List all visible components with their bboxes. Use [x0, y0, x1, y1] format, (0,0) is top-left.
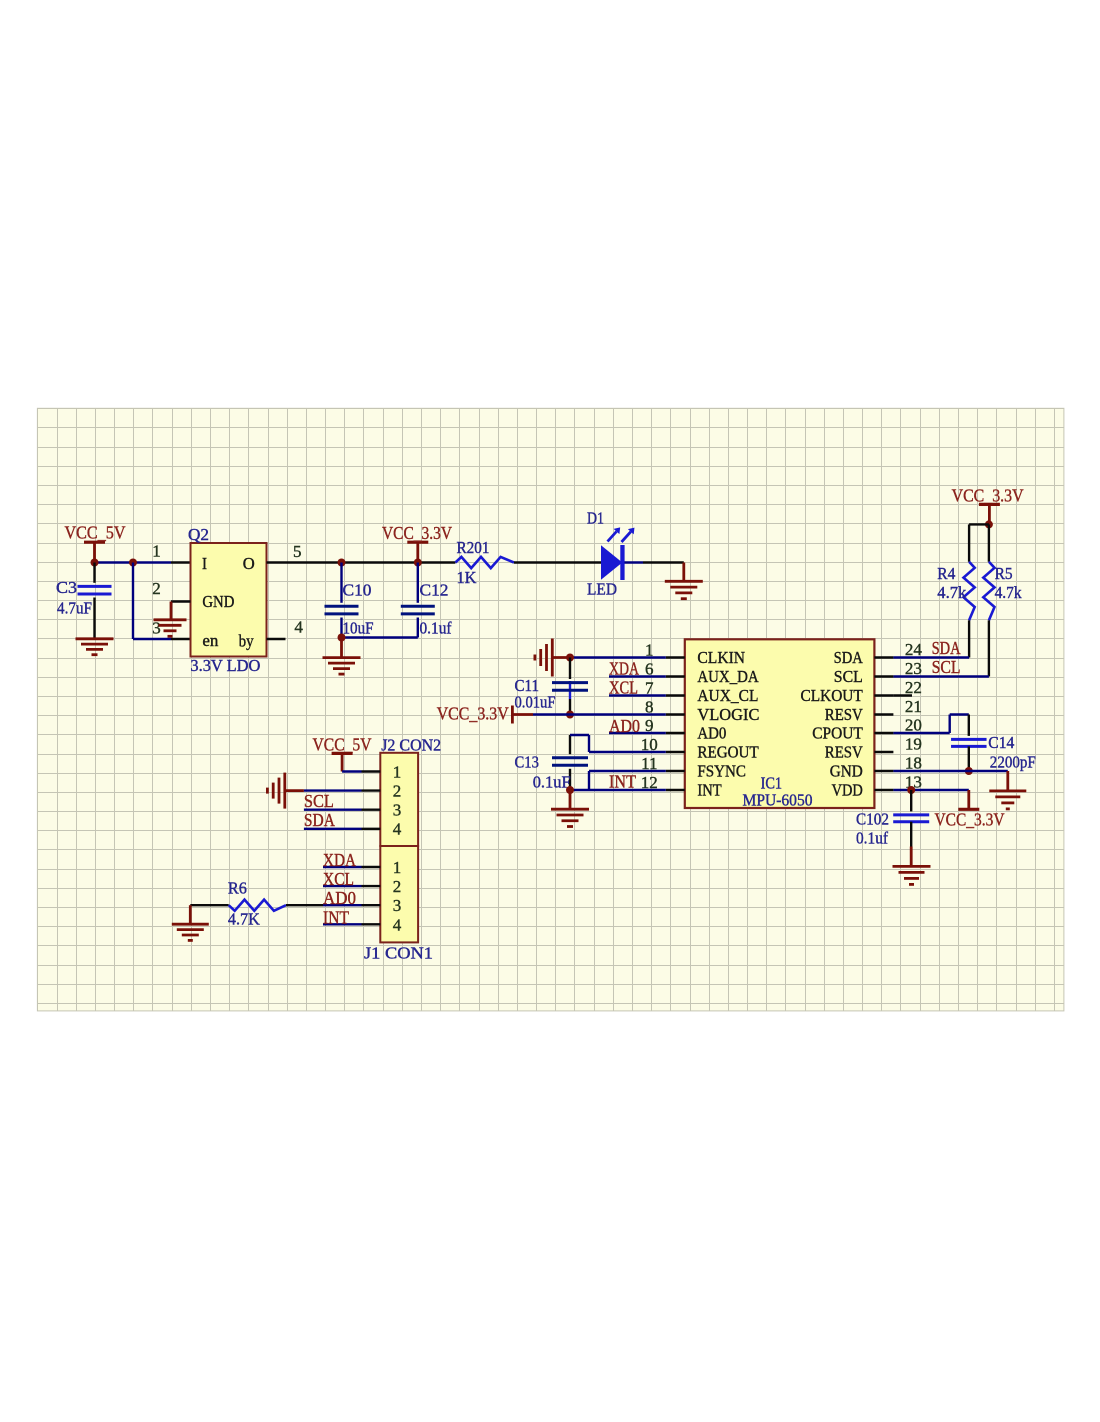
svg-text:1: 1: [393, 858, 402, 877]
svg-text:3: 3: [393, 801, 402, 820]
svg-text:C14: C14: [988, 733, 1014, 752]
svg-text:23: 23: [905, 659, 922, 678]
svg-text:0.01uF: 0.01uF: [515, 692, 556, 711]
svg-text:AD0: AD0: [323, 888, 356, 908]
svg-text:24: 24: [905, 640, 923, 659]
svg-text:1: 1: [393, 762, 402, 781]
svg-text:2: 2: [393, 877, 402, 896]
svg-text:INT: INT: [609, 771, 636, 791]
svg-text:10uF: 10uF: [343, 618, 374, 637]
svg-text:MPU-6050: MPU-6050: [743, 791, 813, 810]
svg-text:RESV: RESV: [825, 705, 864, 724]
svg-text:SCL: SCL: [834, 667, 863, 686]
svg-text:VLOGIC: VLOGIC: [697, 705, 759, 724]
svg-text:VCC_3.3V: VCC_3.3V: [437, 703, 509, 723]
svg-text:0.1uf: 0.1uf: [420, 618, 452, 637]
svg-text:2: 2: [393, 781, 402, 800]
svg-text:XCL: XCL: [609, 678, 638, 698]
svg-text:2200pF: 2200pF: [990, 752, 1036, 771]
svg-text:4: 4: [294, 618, 303, 637]
svg-text:R4: R4: [937, 564, 955, 583]
svg-text:4.7k: 4.7k: [995, 583, 1022, 602]
svg-text:O: O: [243, 554, 255, 573]
svg-text:3: 3: [152, 619, 161, 638]
svg-text:by: by: [239, 632, 254, 651]
svg-text:22: 22: [905, 678, 922, 697]
svg-text:C3: C3: [56, 578, 77, 597]
svg-text:SDA: SDA: [834, 648, 864, 667]
svg-text:AD0: AD0: [609, 716, 640, 736]
svg-text:0.1uF: 0.1uF: [533, 772, 571, 791]
svg-text:19: 19: [905, 734, 922, 753]
svg-text:GND: GND: [202, 592, 234, 611]
svg-text:AUX_CL: AUX_CL: [697, 686, 758, 705]
svg-text:SCL: SCL: [304, 791, 334, 811]
svg-text:GND: GND: [830, 762, 863, 781]
svg-text:VCC_3.3V: VCC_3.3V: [382, 523, 452, 543]
svg-text:LED: LED: [587, 580, 617, 599]
svg-text:VCC_5V: VCC_5V: [313, 735, 372, 755]
svg-text:VCC_3.3V: VCC_3.3V: [935, 810, 1005, 830]
svg-text:INT: INT: [697, 781, 722, 800]
svg-text:R5: R5: [995, 564, 1013, 583]
svg-text:Q2: Q2: [188, 525, 209, 544]
svg-text:4.7K: 4.7K: [228, 909, 261, 928]
svg-text:R201: R201: [457, 538, 490, 557]
svg-text:XDA: XDA: [323, 850, 356, 870]
svg-text:I: I: [202, 554, 207, 573]
svg-text:4.7k: 4.7k: [937, 583, 966, 602]
svg-text:21: 21: [905, 697, 922, 716]
svg-text:XDA: XDA: [609, 659, 639, 679]
svg-text:SDA: SDA: [932, 638, 961, 658]
svg-text:C102: C102: [856, 810, 889, 829]
svg-text:3: 3: [393, 896, 402, 915]
svg-text:SDA: SDA: [304, 810, 335, 830]
svg-text:C13: C13: [515, 752, 540, 771]
svg-text:1K: 1K: [457, 568, 478, 587]
svg-text:VCC_3.3V: VCC_3.3V: [952, 486, 1024, 506]
svg-text:J1 CON1: J1 CON1: [364, 944, 433, 963]
svg-text:AUX_DA: AUX_DA: [697, 667, 759, 686]
svg-text:0.1uf: 0.1uf: [856, 829, 888, 848]
svg-text:J2 CON2: J2 CON2: [381, 736, 441, 755]
svg-text:4.7uF: 4.7uF: [57, 599, 92, 618]
svg-text:CLKIN: CLKIN: [697, 648, 745, 667]
svg-text:CLKOUT: CLKOUT: [801, 686, 864, 705]
svg-text:en: en: [202, 631, 218, 650]
svg-text:XCL: XCL: [323, 869, 354, 889]
svg-text:1: 1: [152, 542, 161, 561]
svg-text:5: 5: [293, 542, 302, 561]
svg-text:RESV: RESV: [825, 743, 864, 762]
svg-text:R6: R6: [228, 878, 247, 897]
svg-text:2: 2: [152, 579, 161, 598]
svg-text:AD0: AD0: [697, 724, 726, 743]
svg-text:CPOUT: CPOUT: [812, 724, 863, 743]
svg-text:4: 4: [393, 915, 402, 934]
svg-text:20: 20: [905, 715, 922, 734]
svg-text:18: 18: [905, 753, 922, 772]
svg-text:SCL: SCL: [932, 657, 961, 677]
svg-text:INT: INT: [323, 907, 349, 927]
svg-text:C12: C12: [420, 581, 449, 600]
svg-text:REGOUT: REGOUT: [697, 743, 759, 762]
svg-text:VCC_5V: VCC_5V: [65, 523, 126, 543]
svg-text:D1: D1: [587, 508, 604, 527]
svg-text:FSYNC: FSYNC: [697, 762, 746, 781]
svg-text:4: 4: [393, 820, 402, 839]
svg-text:C10: C10: [343, 581, 372, 600]
svg-text:3.3V LDO: 3.3V LDO: [190, 656, 260, 675]
svg-text:VDD: VDD: [832, 781, 863, 800]
